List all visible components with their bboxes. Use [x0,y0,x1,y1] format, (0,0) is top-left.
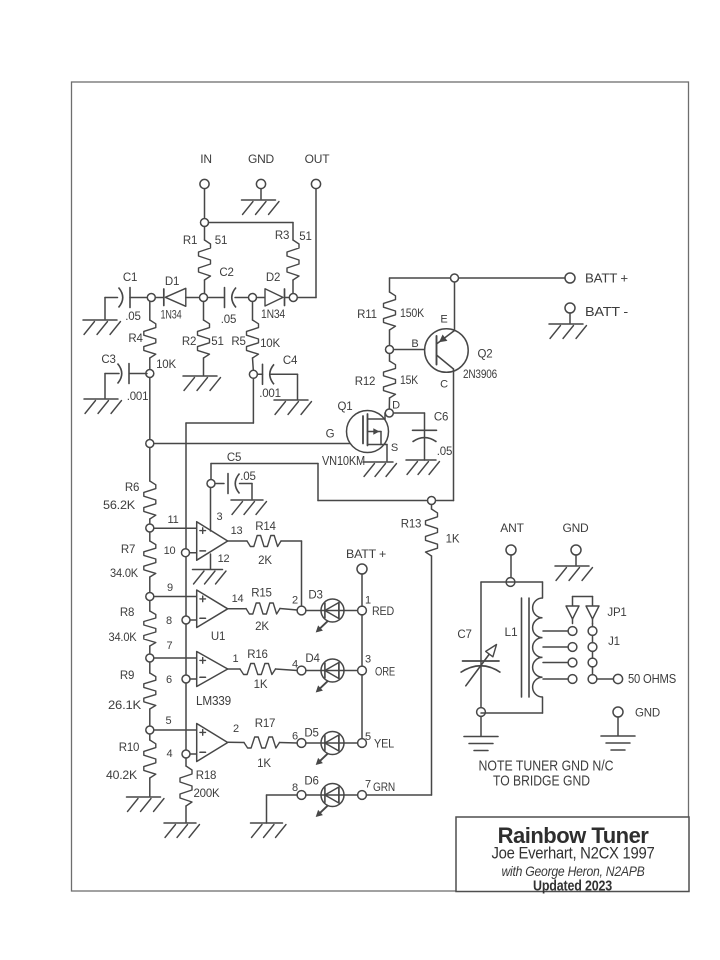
svg-text:C1: C1 [123,272,137,284]
svg-text:R16: R16 [247,649,268,661]
svg-text:7: 7 [167,640,173,652]
wire node F to node H [149,378,151,440]
resistor R2 [182,302,224,359]
svg-text:8: 8 [166,615,172,627]
svg-text:BATT +: BATT + [585,272,628,286]
ground Q1 source [363,462,397,477]
wire BATT+ rail [390,277,566,279]
svg-text:51: 51 [299,231,311,243]
ground D6 anode [251,795,287,838]
svg-text:ORE: ORE [375,665,395,679]
inductor L1 core [505,598,529,697]
svg-text:NOTE TUNER GND N/C: NOTE TUNER GND N/C [479,759,614,775]
svg-text:2K: 2K [258,555,272,567]
pin 10 node [164,545,190,557]
svg-text:JP1: JP1 [607,607,626,619]
resistor R6 [103,481,156,519]
node 8 [292,782,306,799]
resistor R11 [357,292,424,330]
ground C6 [406,460,440,475]
svg-text:40.2K: 40.2K [106,768,137,782]
svg-text:OUT: OUT [305,152,331,166]
node M1 [146,524,154,532]
inductor L1 winding [533,582,543,713]
resistor R17 [244,718,280,770]
ground GND terminal [242,200,280,215]
resistor R3 [275,230,312,280]
wire node M4 to U1D plus [154,715,197,730]
svg-text:C7: C7 [457,629,471,641]
resistor R4 [128,302,176,372]
wire R3 bottom to node E [292,280,294,293]
ground C1 left [83,298,121,335]
wire OUT terminal down to node E [298,189,316,298]
svg-text:10K: 10K [260,338,280,350]
jumper JP1 [566,597,627,624]
svg-text:R13: R13 [401,519,422,531]
wire BATT+ to node 1 [361,574,363,606]
wire C1 to node B [130,297,147,299]
note text [479,759,614,790]
svg-text:R18: R18 [196,770,217,782]
wire D1 to node C [186,297,200,299]
svg-text:R4: R4 [128,333,143,345]
node 6 [292,731,306,748]
op-amp U1A [197,511,243,565]
svg-text:34.0K: 34.0K [110,566,138,580]
node 2 [292,595,306,615]
capacitor C3 [101,354,148,403]
svg-text:GND: GND [562,521,589,535]
wire node C to C2 [208,297,224,299]
pin 4 node [167,748,190,760]
wire U1A out to R14 [228,540,247,542]
wire node M1 to U1A plus [154,514,197,528]
node 3 [358,654,371,675]
svg-text:R3: R3 [275,230,289,242]
resistor R15 [246,588,280,634]
wire minus rail seg4 [185,683,187,750]
svg-text:R17: R17 [255,718,276,730]
svg-text:14: 14 [232,593,244,605]
pin 6 node [166,674,190,686]
svg-text:RED: RED [372,604,394,618]
svg-text:R11: R11 [357,309,377,321]
wire R12 to node Dd [388,398,390,409]
wire ANT to tank [510,555,512,577]
node C [200,294,208,302]
diode D2 [261,272,285,321]
wire R14 to node 2 [281,541,302,606]
svg-text:R7: R7 [121,544,135,556]
svg-text:D3: D3 [308,590,322,602]
resistor R10 [106,734,156,782]
svg-text:D4: D4 [305,653,320,665]
svg-text:1: 1 [365,595,371,607]
ground R2 [183,358,221,391]
wire ground to node 8 [267,794,298,796]
label ORE [375,665,395,679]
svg-text:51: 51 [215,235,227,247]
svg-text:56.2K: 56.2K [103,498,135,512]
LED D3 [308,590,344,633]
svg-text:1K: 1K [446,534,460,546]
node H [146,440,154,448]
node L vplus [207,480,215,488]
wire D5 to node 5 [344,742,358,744]
resistor R8 [109,601,156,646]
node K collector [428,497,436,505]
svg-text:J1: J1 [608,636,620,648]
wire GND terminal to ground [260,189,262,199]
svg-text:R5: R5 [231,336,245,348]
wire R8 to node M3 [149,646,151,654]
wire tank bottom [481,712,543,714]
wire D4 to node 3 [344,670,358,672]
wire R16 to node 4 [276,669,298,671]
wire D2 to node E [285,297,290,299]
wire R1 bottom to node C [204,280,206,294]
wire node G to minus rail [186,379,253,550]
label YEL [374,737,394,751]
op-amp U1C [196,652,239,709]
svg-text:D2: D2 [266,272,280,284]
wire U1C out to R16 [228,668,240,670]
wire J1 to 50 ohms [597,678,614,680]
resistor R13 [401,505,460,557]
op-amp U1D [197,723,239,762]
wire node B to D1 [155,297,163,299]
wire node 4 to D4 [306,670,321,672]
node E [289,294,297,302]
title block [456,817,689,895]
wire node D to D2 [257,297,265,299]
wire R17 to node 6 [280,742,298,745]
ground tank [464,716,498,750]
capacitor C4 [257,355,298,400]
node tank top [506,578,515,587]
wire node 2 to D3 [306,610,321,612]
label RED [372,604,394,618]
svg-text:2N3906: 2N3906 [463,367,497,381]
svg-text:Updated 2023: Updated 2023 [533,879,612,895]
wire pin4 to U1D minus [190,753,197,755]
svg-text:11: 11 [167,514,178,526]
wire node H to R6 [149,448,151,482]
wire IN terminal to node A [204,189,206,219]
svg-text:VN10KM: VN10KM [322,454,365,468]
capacitor C5 [215,452,256,494]
LED D6 [304,776,344,818]
svg-text:D5: D5 [304,728,318,740]
terminal ANT [500,521,524,555]
svg-text:R10: R10 [119,742,140,754]
svg-text:.001: .001 [127,391,149,403]
wire minus rail seg3 [185,624,187,675]
ground C3 [84,374,122,414]
resistor R9 [108,662,156,712]
terminal GND [248,152,275,189]
wire node Dd to C6 [393,413,424,460]
terminal OUT [305,152,331,189]
LED D5 [304,728,344,766]
node A [201,219,209,227]
svg-text:IN: IN [200,152,212,166]
wire U1B out to R15 [228,608,246,610]
svg-text:B: B [411,338,418,350]
svg-text:R1: R1 [183,235,197,247]
wire node I to Q2 base [394,338,437,350]
terminal IN [200,152,212,189]
wire minus rail seg2 [185,557,187,616]
svg-text:S: S [391,442,398,454]
transistor Q1 [322,401,398,468]
terminal 50 OHMS [613,672,676,686]
svg-text:C2: C2 [219,267,233,279]
wire D3 to node 1 [344,610,358,612]
inductor L1 taps [543,627,577,684]
node tank bottom [477,708,486,717]
resistor R14 [247,521,281,567]
svg-text:GRN: GRN [373,780,395,794]
svg-text:6: 6 [292,731,298,743]
svg-text:1N34: 1N34 [261,307,285,321]
node Dd drain [385,400,400,418]
ground BATT- [549,313,587,339]
ground tuner GND [555,555,593,581]
op-amp U1B [197,590,244,643]
wire R10 to ground [149,778,151,796]
pin 8 node [166,615,190,627]
svg-text:4: 4 [292,659,298,671]
wire U1D out to R17 [228,741,244,743]
wire R5 to node G [252,358,255,370]
wire node 8 to D6 [306,794,321,796]
node J emitter-batt [451,274,459,282]
wire R9 to node M4 [149,709,151,726]
svg-text:R9: R9 [120,670,134,682]
capacitor C7 [457,629,500,686]
terminal BATT+ led rail [346,547,386,574]
svg-text:6: 6 [166,674,172,686]
svg-text:51: 51 [211,336,223,348]
wire Q2 collector down [436,369,454,501]
node 7 [358,779,371,800]
resistor R16 [240,649,276,691]
wire U1A pin12 to ground [210,554,212,569]
header J1 [588,624,620,684]
wire node M3 to U1C plus [154,640,197,658]
svg-text:Joe Everhart, N2CX 1997: Joe Everhart, N2CX 1997 [492,845,655,863]
wire U1A pin3 [210,488,212,532]
svg-text:5: 5 [365,731,371,743]
svg-text:3: 3 [217,511,223,523]
svg-text:150K: 150K [400,306,424,320]
wire node A to R3 top [209,223,294,241]
svg-text:R8: R8 [120,607,134,619]
svg-text:ANT: ANT [500,521,524,535]
resistor R12 [355,354,418,399]
svg-text:U1: U1 [211,631,225,643]
resistor R1 [183,235,227,280]
ground C4 [271,374,312,414]
svg-text:7: 7 [365,779,371,791]
node B [147,294,155,302]
wire R11 top [389,278,391,292]
wire tank top [481,581,543,583]
terminal BATT- [565,303,628,319]
resistor R5 [231,302,280,359]
node 5 [358,731,371,747]
wire pin6 to U1C minus [190,678,197,680]
svg-text:2K: 2K [255,621,269,633]
wire pin10 to U1A minus [190,552,197,554]
wire D6 to node 7 [344,794,358,796]
svg-text:YEL: YEL [374,737,394,751]
svg-text:2: 2 [233,723,239,735]
svg-text:LM339: LM339 [196,694,231,708]
svg-text:4: 4 [167,748,173,760]
wire node A to R1 top [204,227,206,241]
svg-text:34.0K: 34.0K [109,630,137,644]
svg-text:.05: .05 [125,311,140,323]
svg-text:C6: C6 [434,412,448,424]
node 4 [292,659,306,675]
wire Q2 emitter to node J [454,282,456,330]
svg-text:BATT +: BATT + [346,547,386,561]
svg-text:1: 1 [233,653,239,665]
svg-text:R6: R6 [125,482,139,494]
svg-text:R12: R12 [355,376,376,388]
svg-text:with George Heron, N2APB: with George Heron, N2APB [502,863,645,879]
svg-text:R14: R14 [255,521,276,533]
svg-text:D1: D1 [165,276,179,288]
svg-text:.05: .05 [240,471,255,483]
svg-text:13: 13 [231,525,243,537]
svg-text:GND: GND [248,152,275,166]
svg-text:C: C [440,379,448,391]
wire node K to C5 node [211,464,428,501]
wire node3 to node5 [361,675,363,739]
svg-text:12: 12 [218,553,230,565]
svg-text:Q2: Q2 [478,349,493,361]
svg-text:2: 2 [292,595,298,607]
svg-text:8: 8 [292,782,298,794]
node M3 [146,654,154,662]
wire Q1 drain to node D2 [384,412,386,414]
label GRN [373,780,395,794]
svg-text:.001: .001 [259,388,281,400]
wire R6 to node M1 [149,519,151,524]
wire node 6 to D5 [306,742,321,744]
ground U1A pin12 [193,570,227,585]
svg-text:TO BRIDGE GND: TO BRIDGE GND [493,774,590,790]
wire C2 to node D [235,297,248,299]
svg-text:10: 10 [164,545,176,557]
terminal GND bridge [613,707,660,720]
diode D1 [161,276,186,322]
wire R7 to node M2 [149,577,151,592]
node M2 [146,593,154,601]
resistor R7 [110,532,156,580]
svg-text:E: E [440,314,447,326]
svg-text:26.1K: 26.1K [108,698,141,712]
svg-text:.05: .05 [221,314,236,326]
wire node1 to node3 [361,615,363,667]
svg-text:R15: R15 [251,588,272,600]
terminal BATT+ [565,272,628,286]
svg-text:C5: C5 [227,452,241,464]
svg-text:9: 9 [167,582,173,594]
node M4 [146,726,154,734]
svg-text:R2: R2 [182,336,196,348]
node F [146,370,154,378]
svg-text:C3: C3 [101,354,115,366]
svg-text:50 OHMS: 50 OHMS [628,672,676,686]
svg-text:15K: 15K [400,373,418,387]
svg-text:BATT -: BATT - [585,305,628,319]
wire Q1 source to ground [386,445,388,462]
node I base [386,346,394,354]
wire node M2 to U1B plus [154,582,197,597]
wire R15 to node 2 [280,609,297,611]
terminal GND tuner [562,521,589,555]
capacitor C6 [413,412,453,459]
ground R10 [127,797,165,812]
wire node H to Q1 gate [154,443,363,445]
svg-text:C4: C4 [283,355,298,367]
node G [249,370,257,378]
node D [249,294,257,302]
node 1 [358,595,371,615]
capacitor C2 [219,267,236,326]
capacitor C1 [119,272,141,323]
transistor Q2 [425,314,498,391]
svg-text:.05: .05 [437,446,452,458]
svg-text:D6: D6 [304,776,318,788]
wire pin8 to U1B minus [190,619,197,621]
svg-text:GND: GND [635,708,660,720]
ground GND bridge [601,717,635,750]
wire R11 to node I [389,330,391,345]
svg-text:1K: 1K [257,758,271,770]
ground R18 [164,806,200,838]
svg-text:200K: 200K [194,786,220,800]
svg-text:D: D [392,400,400,412]
ground C5 [231,484,267,515]
svg-text:1K: 1K [254,679,268,691]
svg-text:L1: L1 [505,625,518,639]
svg-text:10K: 10K [156,359,176,371]
wire R13 to node 7 [366,556,431,795]
svg-text:Q1: Q1 [338,401,353,413]
svg-text:1N34: 1N34 [161,308,182,322]
wire R4 to node F [149,358,151,369]
svg-text:5: 5 [166,715,172,727]
LED D4 [305,653,344,693]
wire tank left upper [480,582,482,708]
svg-text:3: 3 [365,654,371,666]
resistor R18 [180,758,220,806]
svg-text:G: G [326,429,335,441]
